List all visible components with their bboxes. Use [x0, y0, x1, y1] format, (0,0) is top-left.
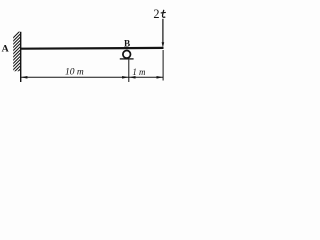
wall line / left extension line [20, 32, 22, 82]
svg-text:B: B [124, 39, 130, 49]
dim arrow left (10 m) [21, 76, 28, 79]
dim arrow right (10 m) [122, 76, 129, 79]
svg-text:1 m: 1 m [132, 67, 146, 77]
force line 2t [162, 19, 164, 44]
dimension line [21, 76, 163, 78]
dim arrow right (1 m) [157, 76, 164, 79]
extension line below B [128, 60, 130, 82]
svg-text:2: 2 [153, 7, 159, 21]
svg-text:A: A [2, 44, 9, 55]
wall hatching at support A [12, 29, 22, 77]
dim arrow left (1 m) [129, 76, 136, 79]
roller ground line [120, 58, 134, 60]
svg-text:10 m: 10 m [65, 68, 84, 78]
force arrowhead [162, 42, 165, 47]
beam [20, 47, 163, 50]
right extension line [162, 50, 164, 81]
roller support B circle [123, 51, 131, 59]
